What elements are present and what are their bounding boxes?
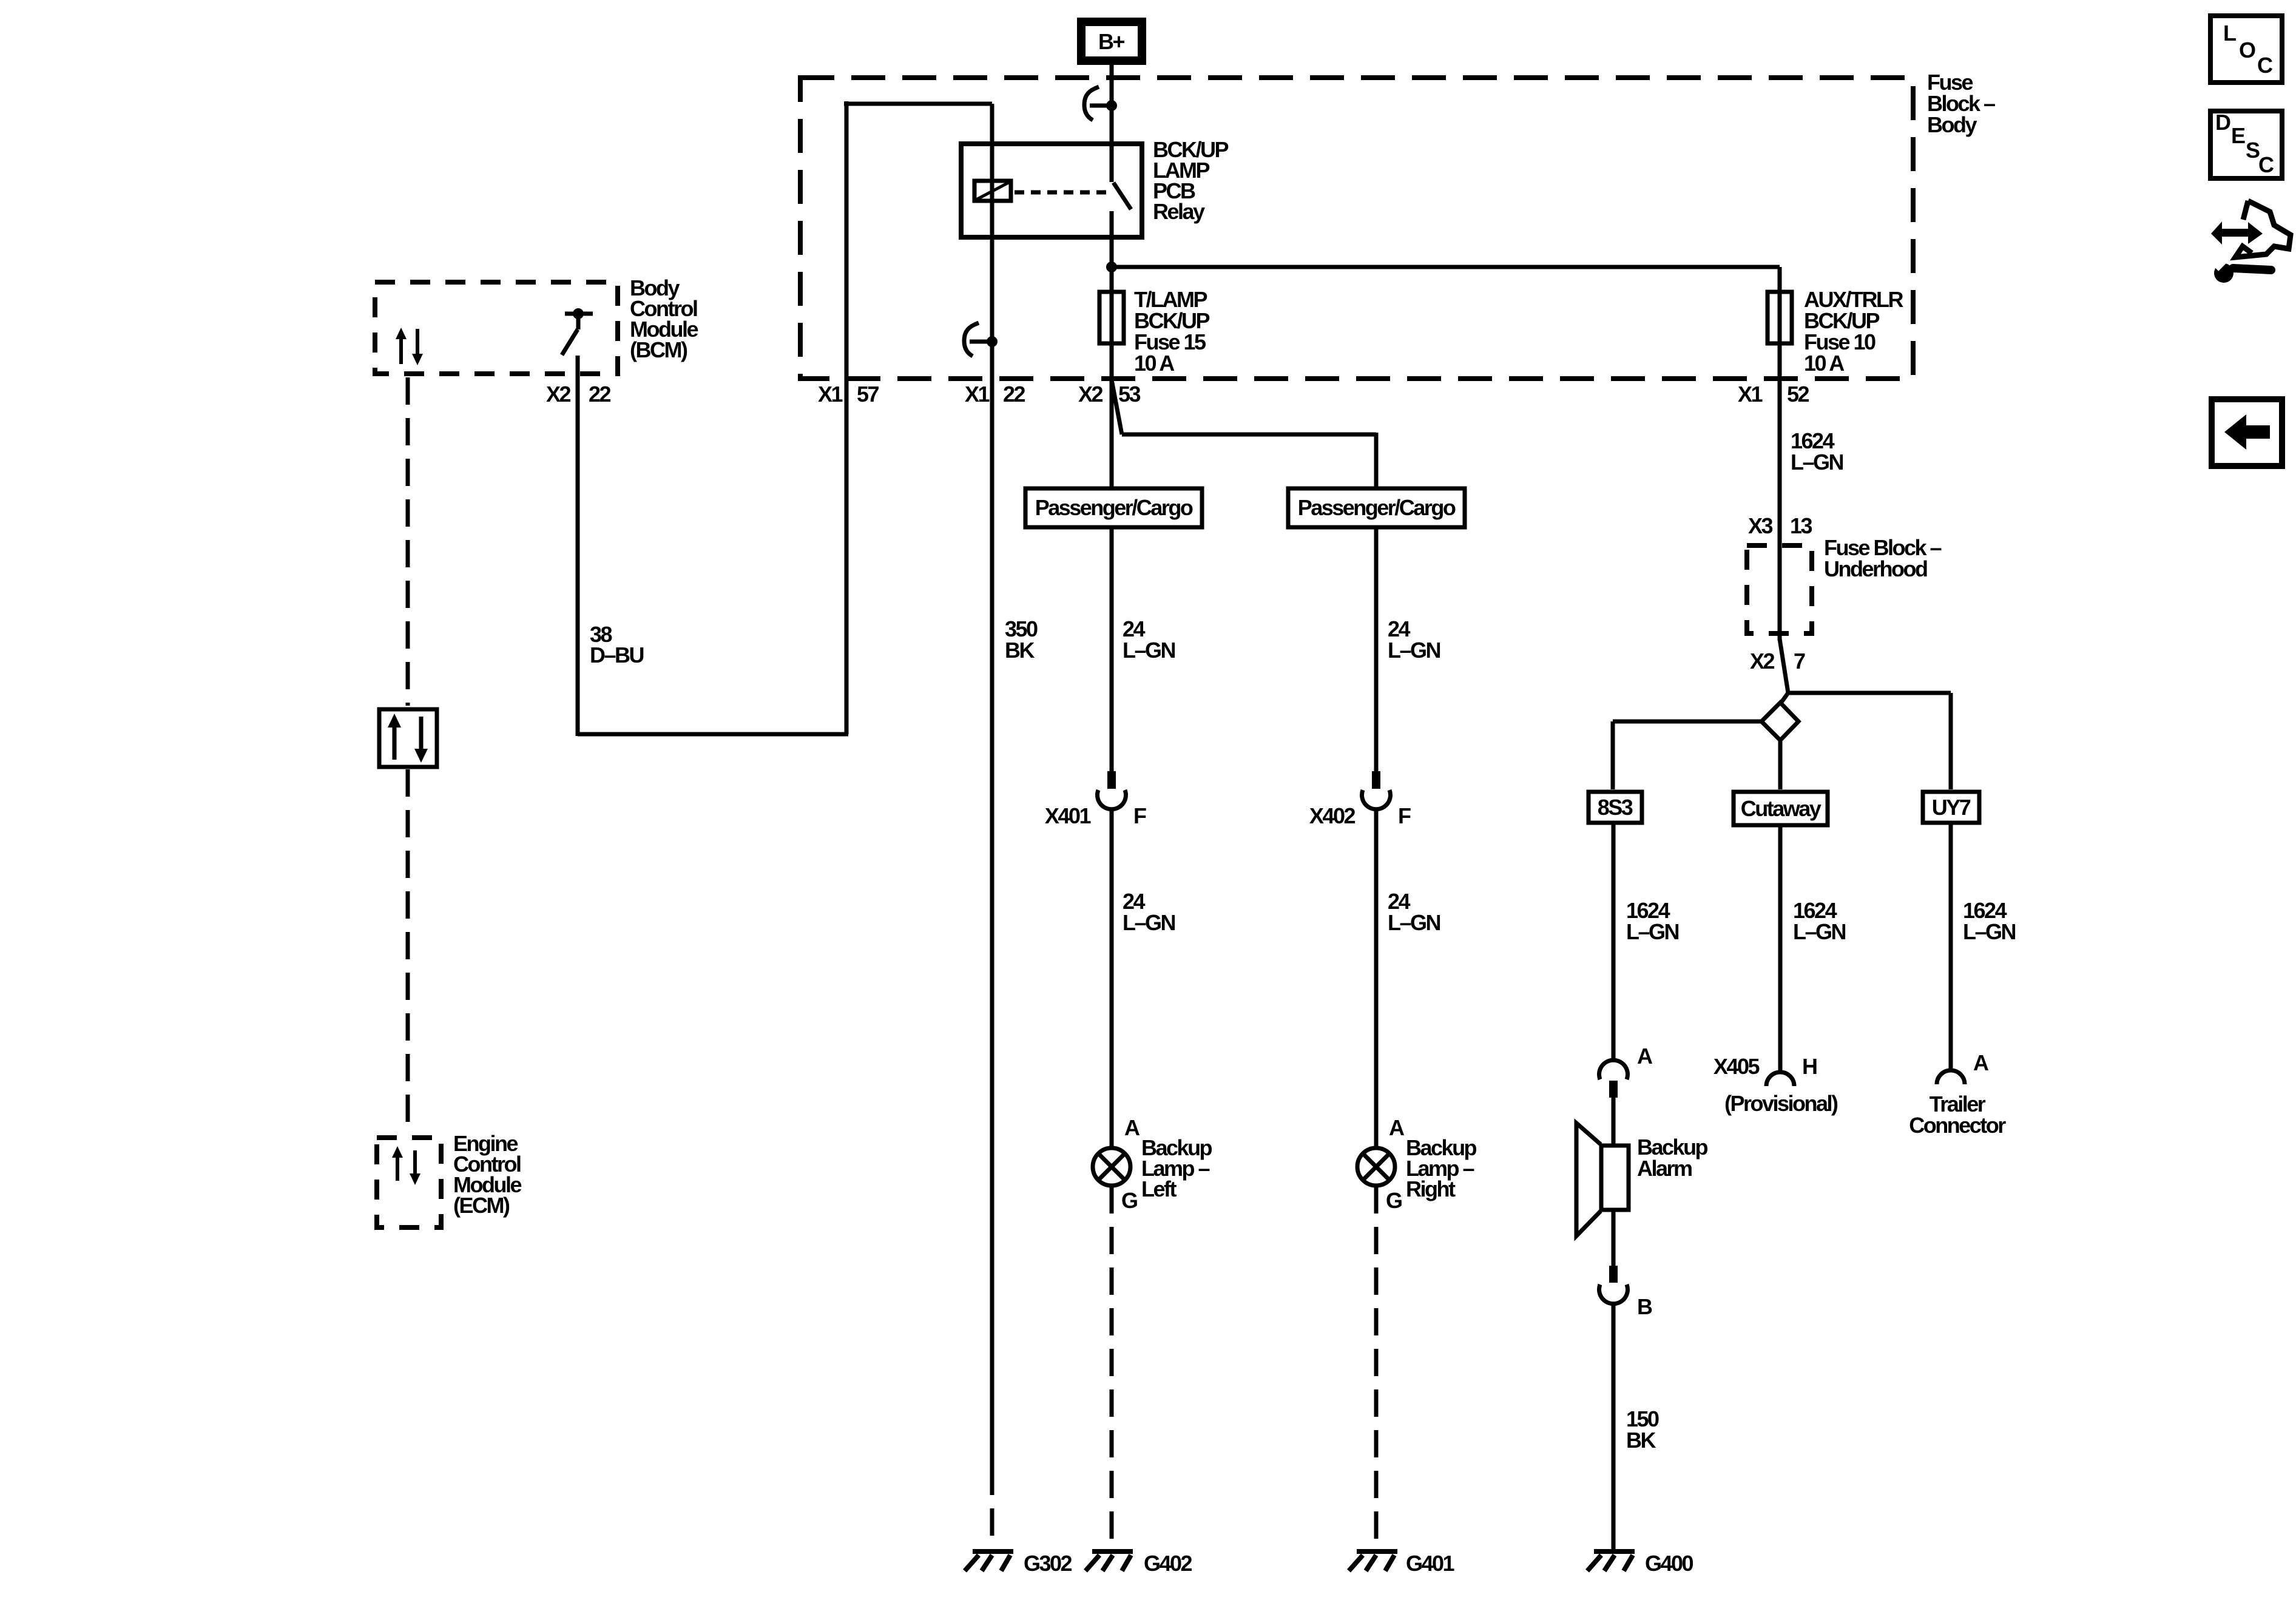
wire AUX fuse down to X2 7 — [1778, 267, 1782, 640]
wire backup alarm to pin B — [1612, 1210, 1616, 1266]
wire Cutaway to X405 — [1778, 826, 1783, 1073]
svg-text:L–GN: L–GN — [1388, 910, 1440, 935]
pin labels X1 22 — [965, 382, 1025, 407]
wire interconnect box to ECM dashed — [406, 769, 410, 1134]
engine control module dashed box — [377, 1138, 441, 1227]
wire branch to UY7 — [1788, 691, 1951, 695]
Passenger/Cargo box left — [1025, 488, 1202, 527]
svg-text:13: 13 — [1790, 513, 1812, 538]
wire B+ feed down to relay switch — [1110, 65, 1114, 144]
relay dashed actuation link — [1015, 191, 1112, 195]
backup lamp right — [1357, 1115, 1405, 1213]
svg-text:53: 53 — [1118, 382, 1141, 407]
svg-text:G302: G302 — [1024, 1551, 1072, 1576]
svg-text:L: L — [2223, 21, 2236, 46]
svg-text:X1: X1 — [1738, 382, 1763, 407]
sidebar back arrow button — [2212, 399, 2282, 466]
wire BCM output 38 D-BU — [576, 356, 580, 736]
svg-text:X2: X2 — [1750, 649, 1775, 673]
backup alarm speaker — [1576, 1123, 1629, 1236]
svg-text:B: B — [1637, 1294, 1652, 1319]
svg-text:52: 52 — [1787, 382, 1809, 407]
Passenger/Cargo box right — [1288, 488, 1465, 527]
svg-text:22: 22 — [589, 382, 611, 407]
wire jog below X2 53 — [1112, 380, 1122, 434]
body control module dashed box — [375, 282, 618, 374]
svg-text:Underhood: Underhood — [1824, 556, 1927, 581]
sidebar service icon double arrow — [2211, 221, 2263, 245]
svg-text:A: A — [1637, 1044, 1653, 1068]
svg-text:57: 57 — [857, 382, 879, 407]
svg-text:X1: X1 — [818, 382, 843, 407]
in-line connector X402 pin F — [1362, 771, 1391, 809]
backup alarm label — [1637, 1135, 1708, 1181]
wire label 1624 L-GN UY7 — [1963, 898, 2016, 944]
svg-text:Relay: Relay — [1153, 199, 1205, 224]
svg-text:X2: X2 — [1078, 382, 1103, 407]
svg-text:Cutaway: Cutaway — [1741, 796, 1822, 821]
wire jog below X2 7 — [1780, 639, 1788, 693]
svg-text:S: S — [2246, 138, 2260, 163]
svg-text:H: H — [1802, 1054, 1817, 1079]
svg-text:Passenger/Cargo: Passenger/Cargo — [1035, 495, 1193, 520]
svg-text:X405: X405 — [1714, 1054, 1760, 1079]
pin labels X2 7 — [1750, 649, 1805, 673]
backup lamp right label — [1406, 1135, 1477, 1201]
BCK/UP LAMP PCB relay box — [961, 144, 1142, 237]
svg-text:L–GN: L–GN — [1791, 450, 1843, 474]
svg-text:X401: X401 — [1045, 803, 1092, 828]
connector X402 labels — [1309, 803, 1411, 828]
wire left lamp feed 24 L-GN — [1110, 380, 1114, 771]
svg-text:8S3: 8S3 — [1598, 795, 1633, 820]
relay switch — [1112, 144, 1131, 240]
svg-text:L–GN: L–GN — [1123, 638, 1175, 663]
junction node at relay output — [1106, 262, 1117, 272]
wire relay switch output to junction — [1110, 211, 1114, 267]
svg-text:Connector: Connector — [1909, 1113, 2006, 1138]
svg-text:A: A — [1389, 1115, 1405, 1140]
svg-text:G: G — [1386, 1188, 1402, 1213]
splice diamond — [1761, 703, 1798, 740]
wire riser X1 57 — [845, 101, 849, 734]
sidebar DESC button — [2210, 110, 2282, 178]
svg-text:O: O — [2239, 38, 2255, 62]
wire branch to AUX/TRLR fuse — [1112, 265, 1780, 269]
svg-text:Right: Right — [1406, 1176, 1456, 1201]
sidebar LOC button — [2210, 16, 2282, 83]
svg-text:10 A: 10 A — [1804, 351, 1845, 376]
wire label 24 L-GN right upper — [1388, 616, 1440, 663]
svg-text:C: C — [2257, 53, 2273, 78]
option box Cutaway — [1734, 792, 1828, 825]
ground G302 — [965, 1551, 1072, 1576]
svg-text:L–GN: L–GN — [1793, 919, 1846, 944]
svg-text:F: F — [1398, 803, 1411, 828]
relay coil — [974, 181, 1011, 201]
svg-text:(BCM): (BCM) — [630, 337, 687, 362]
ground G401 — [1349, 1551, 1455, 1576]
ECM label — [453, 1131, 521, 1218]
fuse block underhood label — [1824, 535, 1942, 581]
pin labels X2 22 (BCM) — [546, 382, 611, 407]
T/LAMP BCK/UP fuse 15 — [1099, 292, 1124, 343]
wire label 1624 L-GN feeder — [1791, 428, 1843, 474]
BCM reverse switch — [562, 308, 593, 355]
connector X401 labels — [1045, 803, 1146, 828]
fuse block underhood dashed box — [1747, 545, 1812, 633]
svg-text:Passenger/Cargo: Passenger/Cargo — [1298, 495, 1456, 520]
wire label 24 L-GN right lower — [1388, 889, 1440, 935]
option box 8S3 — [1589, 792, 1642, 823]
wire right lamp to ground dashed — [1374, 1186, 1379, 1548]
svg-text:C: C — [2258, 152, 2274, 177]
wire label 1624 L-GN cutaway — [1793, 898, 1846, 944]
ECM internal up/down arrows — [392, 1146, 420, 1185]
svg-text:L–GN: L–GN — [1123, 910, 1175, 935]
wire label 1624 L-GN 8S3 — [1626, 898, 1679, 944]
wire splice to 8S3 — [1613, 720, 1761, 724]
BCM internal up/down arrows — [396, 328, 423, 365]
wire label 150 BK — [1626, 1406, 1659, 1453]
option box UY7 — [1923, 792, 1979, 823]
junction node at relay coil output — [987, 336, 998, 347]
wire UY7 to trailer connector — [1949, 825, 1953, 1071]
pin labels X1 57 — [818, 382, 879, 407]
in-line connector A to backup alarm — [1599, 1044, 1653, 1098]
svg-text:X3: X3 — [1748, 513, 1773, 538]
wire 350 BK dashed part to G302 — [990, 1468, 994, 1548]
in-line connector B below alarm — [1599, 1266, 1653, 1319]
svg-text:(Provisional): (Provisional) — [1724, 1091, 1838, 1116]
svg-text:G400: G400 — [1645, 1551, 1693, 1576]
svg-text:E: E — [2231, 123, 2245, 148]
wire label 24 L-GN left upper — [1123, 616, 1175, 663]
wire bottom horizontal 38 D-BU run — [578, 732, 848, 737]
wire right lamp feed 24 L-GN — [1374, 433, 1379, 771]
sidebar service icon wrench — [2213, 256, 2271, 283]
svg-text:10 A: 10 A — [1134, 351, 1175, 376]
svg-text:X2: X2 — [546, 382, 571, 407]
wire label 24 L-GN left lower — [1123, 889, 1175, 935]
pin labels X3 13 — [1748, 513, 1812, 538]
wire X401 to left backup lamp — [1110, 810, 1114, 1147]
junction node at B+ feed — [1106, 100, 1117, 111]
svg-text:Alarm: Alarm — [1637, 1156, 1692, 1181]
svg-text:7: 7 — [1794, 649, 1805, 673]
wire left lamp to ground dashed — [1110, 1186, 1114, 1548]
wire 8S3 to connector A — [1612, 825, 1616, 1061]
pin labels X2 53 — [1078, 382, 1141, 407]
svg-text:F: F — [1133, 803, 1146, 828]
wire through T/LAMP fuse to X2 53 — [1110, 267, 1114, 381]
svg-text:D: D — [2215, 110, 2230, 135]
ground G400 — [1587, 1551, 1693, 1576]
ground G402 — [1086, 1551, 1192, 1576]
svg-text:G: G — [1121, 1188, 1137, 1213]
svg-text:UY7: UY7 — [1932, 795, 1971, 820]
fuse block body label — [1927, 70, 1995, 137]
svg-text:G402: G402 — [1144, 1551, 1192, 1576]
wire into splice diamond — [1780, 693, 1788, 704]
svg-text:B+: B+ — [1098, 29, 1124, 54]
svg-text:BK: BK — [1005, 638, 1035, 663]
svg-text:G401: G401 — [1406, 1551, 1455, 1576]
svg-text:(ECM): (ECM) — [453, 1193, 510, 1218]
svg-text:A: A — [1973, 1050, 1989, 1075]
trailer connector terminal A — [1909, 1050, 2006, 1138]
wire X402 to right backup lamp — [1374, 810, 1379, 1147]
BCM label — [630, 275, 698, 362]
wire relay coil column (from top horizontal through coil to clip junction) — [990, 104, 994, 342]
fuse block body dashed outline — [800, 78, 1913, 379]
svg-text:L–GN: L–GN — [1963, 919, 2016, 944]
backup lamp left — [1093, 1115, 1140, 1213]
wire 150 BK to G400 — [1612, 1303, 1616, 1551]
svg-text:A: A — [1124, 1115, 1140, 1140]
clip attachment at relay coil output — [964, 323, 992, 356]
terminal X405 H provisional — [1714, 1054, 1838, 1116]
pin labels X1 52 — [1738, 382, 1809, 407]
svg-text:BK: BK — [1626, 1428, 1656, 1453]
clip attachment at B+ feed — [1084, 87, 1112, 120]
svg-text:X402: X402 — [1309, 803, 1356, 828]
interconnect up/down arrows box — [379, 709, 437, 767]
relay label — [1153, 137, 1228, 224]
svg-text:L–GN: L–GN — [1388, 638, 1440, 663]
T/LAMP fuse label — [1134, 287, 1209, 376]
wire connector A to backup alarm — [1612, 1096, 1616, 1145]
wire label 38 D-BU — [590, 622, 644, 667]
sidebar service icon outline — [2235, 201, 2291, 257]
svg-text:X1: X1 — [965, 382, 990, 407]
AUX/TRLR fuse label — [1804, 287, 1903, 376]
wire splice to Cutaway — [1778, 740, 1783, 789]
wire UY7 drop — [1949, 693, 1953, 789]
wire top horizontal from X1 57 riser to coil — [844, 102, 992, 106]
backup lamp left label — [1141, 1135, 1212, 1201]
svg-text:D–BU: D–BU — [590, 643, 644, 667]
battery positive B+ terminal — [1081, 22, 1142, 61]
svg-text:Body: Body — [1927, 112, 1977, 137]
svg-text:22: 22 — [1003, 382, 1025, 407]
svg-text:L–GN: L–GN — [1626, 919, 1679, 944]
wire label 350 BK — [1005, 616, 1038, 663]
wire BCM to interconnect box dashed — [406, 377, 410, 706]
wire 8S3 drop — [1611, 721, 1615, 789]
in-line connector X401 pin F — [1098, 771, 1126, 809]
wire branch to right Passenger/Cargo — [1122, 433, 1376, 437]
wire 350 BK solid part — [990, 342, 994, 1468]
svg-text:Left: Left — [1141, 1176, 1177, 1201]
AUX/TRLR BCK/UP fuse 10 — [1768, 292, 1792, 343]
